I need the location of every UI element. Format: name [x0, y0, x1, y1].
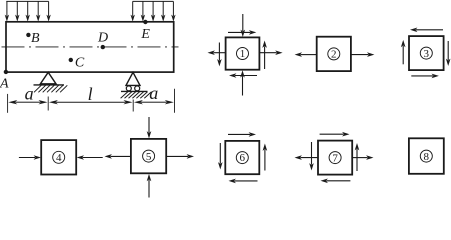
- extension line left support: [47, 97, 49, 111]
- svg-text:D: D: [97, 31, 108, 46]
- svg-text:2: 2: [331, 49, 337, 61]
- distributed load q (left overhang): [5, 1, 51, 21]
- svg-text:8: 8: [424, 151, 430, 163]
- stress element 8: [409, 138, 444, 174]
- extension line beam-left: [7, 94, 9, 113]
- svg-text:C: C: [75, 56, 85, 71]
- stress element 3: [401, 28, 451, 79]
- svg-text:7: 7: [332, 152, 338, 164]
- stress element 5: [105, 117, 195, 198]
- stress element 6: [218, 132, 267, 183]
- dimension a (left): [8, 84, 47, 105]
- svg-text:4: 4: [56, 152, 62, 164]
- point A: [0, 70, 9, 92]
- extension line beam-right: [174, 89, 176, 113]
- dimension a (right): [134, 83, 174, 104]
- point E: [140, 20, 150, 42]
- stress element 2: [295, 37, 375, 71]
- beam centerline: [2, 46, 179, 48]
- roller support (right): [121, 72, 152, 98]
- distributed load q (right overhang): [131, 1, 176, 21]
- point D: [97, 31, 108, 50]
- svg-text:A: A: [0, 76, 9, 91]
- svg-text:6: 6: [240, 152, 246, 164]
- svg-text:5: 5: [146, 151, 152, 163]
- svg-text:B: B: [31, 31, 40, 46]
- svg-text:l: l: [88, 84, 93, 104]
- svg-text:3: 3: [424, 48, 430, 60]
- svg-text:a: a: [25, 84, 34, 104]
- pin support (left): [34, 72, 68, 92]
- svg-text:E: E: [140, 27, 150, 42]
- beam: [6, 22, 174, 72]
- point B: [26, 31, 40, 46]
- svg-text:1: 1: [240, 48, 246, 60]
- point C: [69, 56, 85, 71]
- svg-text:a: a: [149, 83, 158, 103]
- stress element 4: [19, 140, 103, 174]
- dimension l: [49, 84, 133, 104]
- stress element 7: [295, 132, 374, 183]
- stress element 1: [208, 14, 283, 96]
- extension line right support: [132, 100, 134, 112]
